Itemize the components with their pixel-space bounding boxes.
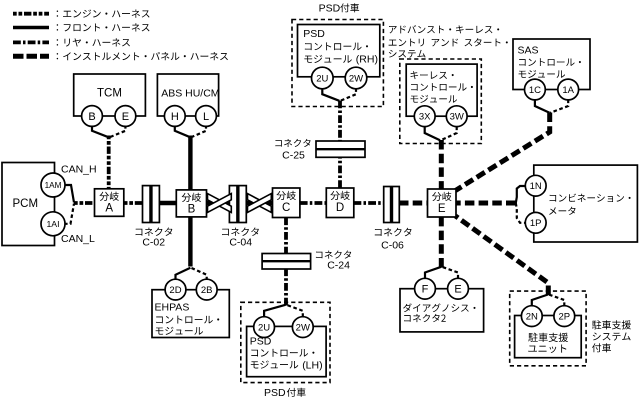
label connector C-06 <box>375 228 412 252</box>
svg-text:SAS: SAS <box>518 45 539 57</box>
box: keyless control module <box>406 64 477 116</box>
legend label: front harness <box>57 23 150 31</box>
dashed enclosure: PSD LH option box <box>241 302 330 382</box>
wire: engine harness, TCM junction down to branch A <box>107 136 111 191</box>
pin circle B of TCM <box>82 106 103 127</box>
svg-text:1AI: 1AI <box>46 219 59 229</box>
wire: instrument panel harness, branch E to parking-assist junction (diagonal) <box>456 216 549 295</box>
wire: instrument panel harness, branch E up to keyless junction <box>439 140 444 190</box>
box: PSD control module RH <box>298 25 380 77</box>
pin circle 2W of PSD LH <box>292 317 313 338</box>
connector C-04 symbol <box>229 186 246 223</box>
svg-text:A: A <box>105 203 113 215</box>
svg-text:2N: 2N <box>526 311 538 322</box>
box: SAS control module <box>513 39 590 90</box>
label EHPAS control module <box>155 301 220 335</box>
pin circle 1AM of PCM <box>41 173 65 197</box>
svg-text:(LH): (LH) <box>302 359 322 371</box>
pin circle 1A of SAS <box>558 79 579 100</box>
label connector C-24 <box>316 250 351 271</box>
box: parking assist unit <box>515 316 582 358</box>
connector C-24 symbol <box>262 254 311 270</box>
wire elbow: PSD RH pin 2W dashed <box>340 88 356 101</box>
svg-text:L: L <box>203 111 209 123</box>
pin circle 2N of parking unit <box>521 306 542 327</box>
wire: engine harness, PCM junction to branch A <box>74 201 95 205</box>
wire: instrument panel harness, branch E down to diagnosis junction <box>439 217 444 268</box>
svg-text:3W: 3W <box>450 112 464 123</box>
node: branch box A <box>95 189 124 217</box>
wire elbow: diagnosis pin E dashed <box>442 267 458 279</box>
svg-text:2U: 2U <box>316 73 328 84</box>
wire elbow: ABS pin H solid <box>175 125 191 137</box>
pin circle E of TCM <box>115 106 136 127</box>
legend label: instrument panel harness <box>57 52 228 60</box>
pin circle L of ABS <box>196 106 217 127</box>
box: PSD control module LH <box>247 326 327 376</box>
connector C-25 symbol <box>316 141 365 157</box>
svg-text:PSD: PSD <box>319 3 341 15</box>
label SAS control module <box>518 45 581 78</box>
pin circle F of diagnosis <box>415 278 436 299</box>
wire: front harness, branch B down to EHPAS junction <box>188 217 192 267</box>
twisted pair marker between C-04 and branch C <box>248 194 272 213</box>
label keyless control module <box>411 71 473 103</box>
label connector C-04 <box>222 227 259 248</box>
dashed enclosure: keyless module box <box>400 59 482 144</box>
wire elbow: TCM pin E dashed <box>109 125 125 137</box>
svg-text:C-02: C-02 <box>142 236 165 248</box>
box: diagnosis connector 2 <box>400 289 484 332</box>
svg-text:1C: 1C <box>529 85 541 96</box>
svg-text:PSD: PSD <box>264 387 286 399</box>
wire elbow: ABS pin L dashed <box>191 125 206 137</box>
svg-text:F: F <box>422 284 429 296</box>
wire: front harness, connector C-04 to branch C (twisted) <box>246 201 273 205</box>
svg-text:E: E <box>438 203 446 215</box>
svg-text:1P: 1P <box>530 218 542 229</box>
wire: engine harness, branch A to connector C-02 <box>124 201 143 205</box>
svg-text:ABS HU/CM: ABS HU/CM <box>161 87 219 99</box>
svg-text:2U: 2U <box>258 322 270 333</box>
wire elbow: PSD LH pin 2U solid <box>264 305 285 317</box>
pin circle 1C of SAS <box>525 79 546 100</box>
wire elbow: PSD LH pin 2W dashed <box>286 305 303 317</box>
pin circle 2W of PSD RH <box>345 67 367 89</box>
svg-text:2D: 2D <box>169 285 181 296</box>
svg-text:TCM: TCM <box>97 87 122 99</box>
wire: instrument panel harness, connector C-06 to branch E <box>399 201 428 206</box>
svg-text:1A: 1A <box>562 85 574 96</box>
dashed enclosure: parking assist option box <box>510 291 586 366</box>
pin circle 1P of meter <box>525 212 546 233</box>
label connector C-25 <box>275 139 310 162</box>
wire elbow: parking unit pin 2N solid <box>532 295 548 307</box>
svg-text:C-06: C-06 <box>381 239 404 251</box>
svg-text:B: B <box>188 204 196 216</box>
pin circle 3W of keyless <box>446 106 467 127</box>
svg-text:C-25: C-25 <box>282 150 305 162</box>
pin circle 2U of PSD LH <box>254 317 275 338</box>
connector C-06 symbol <box>384 187 400 223</box>
wire: instrument panel harness, branch E to combination meter junction <box>456 201 516 206</box>
svg-text:E: E <box>122 111 129 123</box>
label connector C-02 <box>136 227 173 248</box>
wire elbow: meter pin 1N solid <box>516 186 526 203</box>
label PSD control module (RH) <box>303 28 378 66</box>
label advanced keyless entry and start system <box>389 25 508 58</box>
box: ABS HU/CM module <box>157 74 218 116</box>
node: branch box D <box>326 188 354 218</box>
pin circle 3X of keyless <box>414 106 435 127</box>
wire elbow: EHPAS pin 2D solid <box>176 268 191 281</box>
pin circle 2U of PSD RH <box>312 67 334 89</box>
svg-text:CAN_L: CAN_L <box>61 233 95 245</box>
label parking assist unit <box>528 333 568 353</box>
wire: rear harness, branch C to branch D <box>300 201 327 205</box>
svg-text:PSD: PSD <box>303 28 325 40</box>
legend label: rear harness <box>57 38 130 46</box>
label diagnosis connector 2 <box>403 303 475 322</box>
wire elbow: PCM pin 1AM (CAN_H) solid <box>64 185 74 203</box>
pin circle E of diagnosis <box>448 278 469 299</box>
wire: rear harness, connector C-25 up to PSD RH junction <box>338 101 342 143</box>
twisted pair marker between branch B and C-04 <box>208 194 232 213</box>
wire elbow: diagnosis pin F solid <box>425 267 441 279</box>
wire: front harness, ABS junction down to branch B <box>188 136 192 192</box>
legend label: engine harness <box>57 9 150 17</box>
svg-text:C-24: C-24 <box>327 259 350 271</box>
svg-text:D: D <box>336 202 344 214</box>
wire: front harness, connector C-02 to branch B <box>159 201 177 205</box>
svg-text:H: H <box>171 111 179 123</box>
box: PCM module <box>2 163 55 246</box>
wire elbow: keyless pin 3W dashed <box>441 127 457 141</box>
svg-text:B: B <box>88 111 95 123</box>
pin circle 1N of meter <box>525 175 546 196</box>
dashed enclosure: PSD RH option box <box>292 20 383 107</box>
label parking assist system equipped <box>592 320 631 352</box>
svg-text:1AM: 1AM <box>45 181 62 190</box>
wire elbow: meter pin 1P dashed <box>516 203 526 223</box>
wire: instrument panel harness, branch E to SAS junction (diagonal) <box>456 113 550 191</box>
box: combination meter <box>534 165 638 242</box>
legend sample: engine harness line <box>13 12 49 16</box>
pin circle H of ABS <box>164 106 185 127</box>
svg-text:PCM: PCM <box>13 198 39 210</box>
svg-text:2P: 2P <box>558 311 570 322</box>
node: branch box B <box>176 190 206 217</box>
connector C-02 symbol <box>143 186 160 223</box>
svg-text:E: E <box>454 284 461 296</box>
pin circle 1AI of PCM <box>41 212 65 236</box>
wire elbow: parking unit pin 2P dashed <box>549 295 565 307</box>
svg-text:2W: 2W <box>349 73 363 84</box>
wire elbow: PSD RH pin 2U solid <box>322 88 339 101</box>
pin circle 2D of EHPAS <box>165 279 186 300</box>
wire: front harness, branch B to connector C-04 (twisted) <box>206 201 230 205</box>
svg-text:CAN_H: CAN_H <box>61 164 97 176</box>
svg-text:EHPAS: EHPAS <box>155 301 190 313</box>
wire elbow: SAS pin 1A dashed <box>550 100 568 113</box>
wire: rear harness, connector C-24 down to PSD LH junction <box>284 269 288 306</box>
wire elbow: PCM pin 1AI (CAN_L) dashed <box>64 204 74 224</box>
legend sample: front harness line <box>13 26 49 30</box>
pin circle 2P of parking unit <box>554 306 575 327</box>
node: branch box C <box>273 188 300 218</box>
node: branch box E <box>428 189 457 217</box>
label combination meter <box>549 194 631 215</box>
svg-text:1N: 1N <box>530 181 542 192</box>
box: TCM module <box>74 74 146 116</box>
svg-text:C: C <box>282 202 290 214</box>
wire: rear harness, branch D to connector C-06 <box>354 201 385 205</box>
wire elbow: keyless pin 3X solid <box>425 127 440 141</box>
wire elbow: SAS pin 1C solid <box>535 100 550 113</box>
wire elbow: EHPAS pin 2B dashed <box>191 268 207 281</box>
svg-text:3X: 3X <box>419 112 431 123</box>
label PSD-equipped (bottom) <box>264 387 306 399</box>
pin circle 2B of EHPAS <box>196 279 217 300</box>
svg-text:2B: 2B <box>201 285 213 296</box>
svg-text:(RH): (RH) <box>356 54 378 66</box>
legend sample: instrument panel harness line <box>13 54 49 59</box>
svg-text:2W: 2W <box>296 322 310 333</box>
box: EHPAS module <box>152 290 229 338</box>
wire: rear harness, branch D up to connector C-25 <box>338 142 342 188</box>
label PSD control module (LH) <box>250 335 323 371</box>
svg-text:C-04: C-04 <box>229 236 252 248</box>
wire elbow: TCM pin B solid <box>92 125 109 137</box>
label PSD-equipped (top) <box>319 3 360 15</box>
legend sample: rear harness line <box>13 41 49 45</box>
wire: rear harness, branch C down to connector C-24 <box>284 217 288 254</box>
